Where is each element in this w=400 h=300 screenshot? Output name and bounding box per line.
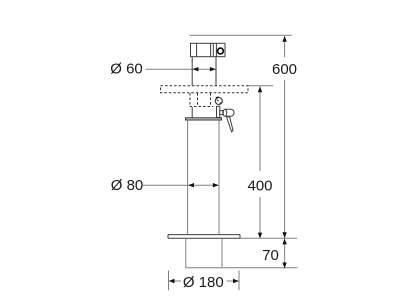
svg-text:400: 400 <box>247 177 272 194</box>
svg-text:70: 70 <box>262 247 279 264</box>
svg-text:600: 600 <box>272 61 297 78</box>
svg-text:Ø 60: Ø 60 <box>110 61 143 78</box>
svg-text:Ø 80: Ø 80 <box>111 177 144 194</box>
svg-text:Ø 180: Ø 180 <box>183 274 224 291</box>
